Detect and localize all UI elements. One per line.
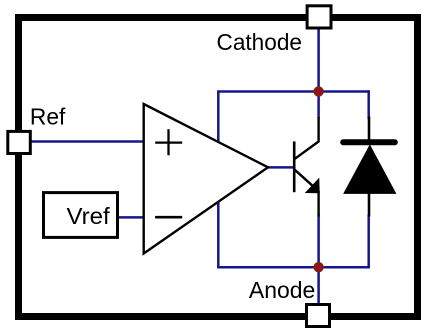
op-amp U1 [144,104,268,254]
reference Vref [44,193,118,238]
wire transistor emitter to anode node (vertical) [317,215,320,268]
base bar [293,141,296,192]
wire cathode pin to node (vertical) [317,27,320,118]
op-amp + input symbol [155,141,182,143]
svg-text:Anode: Anode [249,277,315,303]
cathode bar [343,139,395,145]
pin Anode [307,305,330,327]
wire Ref input (Ref pin to op-amp + input) [25,140,144,143]
emitter lead [295,170,313,186]
svg-text:Vref: Vref [67,203,111,229]
diode D1 [343,117,395,217]
pin Ref [8,131,31,153]
wire anode rail (bottom horizontal) [217,266,370,269]
wire Vref to op-amp - input [117,216,144,219]
collector lead [295,117,319,159]
op-amp - input symbol [155,216,182,219]
emitter arrowhead [306,179,319,193]
junction cathode node [313,86,323,96]
wire op-amp top supply (vertical, to cathode rail) [217,92,220,268]
wire diode anode branch (vertical to bottom rail) [367,215,370,269]
diode body [344,145,396,193]
anode lead [368,193,371,217]
svg-text:Ref: Ref [30,104,66,130]
wire diode cathode branch (vertical from top rail) [367,90,370,119]
pin Cathode [307,6,331,28]
cathode lead [368,117,371,141]
svg-text:Cathode: Cathode [217,29,303,55]
transistor Q1 [294,117,319,217]
wire op-amp output to transistor base [266,166,294,169]
junction anode node [313,262,323,272]
wire anode node to anode pin (vertical) [317,267,320,308]
wire cathode rail (top horizontal) [217,90,370,93]
